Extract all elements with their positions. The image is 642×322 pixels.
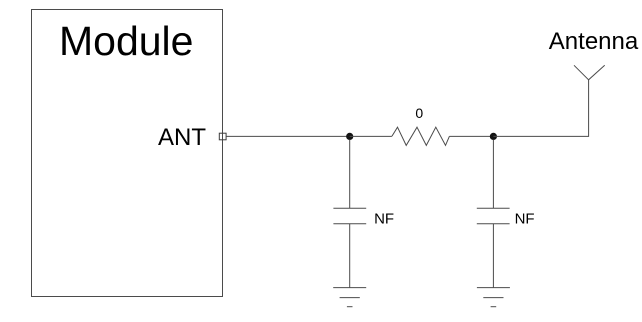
- ground 2: [477, 288, 510, 307]
- capacitor C2 (NF) top plate: [477, 207, 510, 209]
- svg-text:0: 0: [415, 105, 423, 121]
- antenna symbol: [574, 65, 605, 80]
- junction node 1: [346, 133, 353, 140]
- wire from node 2 to antenna corner: [493, 80, 588, 137]
- wire from node 1 to resistor R: [350, 135, 392, 137]
- svg-text:ANT: ANT: [158, 124, 206, 151]
- pin ANT terminal square: [219, 133, 226, 140]
- capacitor C1 (NF) top plate: [333, 207, 366, 209]
- wire from pin ANT to node 1: [226, 135, 350, 137]
- svg-text:Antenna: Antenna: [549, 28, 639, 55]
- wire from node 1 to capacitor C1: [349, 140, 351, 209]
- svg-text:NF: NF: [515, 210, 535, 227]
- capacitor C2 (NF) bottom plate: [477, 223, 510, 225]
- svg-text:Module: Module: [59, 18, 193, 64]
- wire from node 2 to capacitor C2: [492, 140, 494, 209]
- svg-text:NF: NF: [374, 210, 394, 227]
- wire from resistor R to node 2: [449, 135, 493, 137]
- wire from capacitor C2 to ground 2: [492, 224, 494, 288]
- ground 1: [333, 288, 366, 307]
- resistor R (0 ohm) zigzag: [392, 127, 450, 145]
- module box U1: [32, 10, 223, 297]
- junction node 2: [490, 133, 497, 140]
- wire from capacitor C1 to ground 1: [349, 224, 351, 288]
- capacitor C1 (NF) bottom plate: [333, 223, 366, 225]
